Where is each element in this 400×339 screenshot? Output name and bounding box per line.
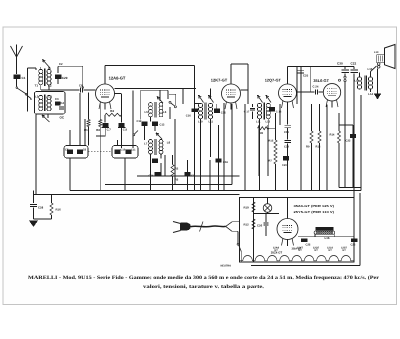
- svg-text:C11: C11: [131, 149, 136, 152]
- svg-text:C.8: C.8: [123, 129, 128, 132]
- svg-text:GT: GT: [274, 249, 278, 252]
- svg-text:C15: C15: [221, 112, 226, 115]
- svg-text:R16: R16: [56, 208, 62, 212]
- svg-text:C3: C3: [55, 97, 59, 101]
- svg-text:L13: L13: [355, 80, 360, 83]
- svg-text:R1: R1: [84, 128, 88, 132]
- svg-text:C20: C20: [282, 164, 287, 167]
- svg-text:L4: L4: [49, 95, 53, 99]
- svg-text:35Z4-GT (PER 125 V): 35Z4-GT (PER 125 V): [294, 204, 335, 208]
- svg-text:C1: C1: [22, 76, 26, 80]
- svg-text:C16: C16: [223, 161, 228, 164]
- svg-text:C26: C26: [257, 224, 263, 228]
- svg-text:R15: R15: [269, 140, 274, 143]
- svg-text:12K7-GT: 12K7-GT: [211, 77, 228, 82]
- svg-text:R14: R14: [330, 134, 335, 137]
- svg-text:C.7: C.7: [107, 129, 112, 132]
- svg-text:GT: GT: [314, 249, 318, 252]
- svg-text:C6: C6: [79, 84, 83, 88]
- svg-text:35L6-GT: 35L6-GT: [313, 78, 329, 83]
- svg-text:R5: R5: [175, 179, 179, 182]
- svg-text:C23: C23: [346, 140, 351, 143]
- svg-text:R4: R4: [110, 109, 114, 113]
- svg-text:25Y5-GT (PER 110 V): 25Y5-GT (PER 110 V): [294, 210, 335, 214]
- svg-text:C 18: C 18: [276, 110, 282, 113]
- svg-text:L5: L5: [145, 110, 149, 114]
- svg-text:L14: L14: [368, 92, 373, 96]
- svg-text:C24: C24: [284, 145, 289, 148]
- svg-text:valori, tensioni, tarature v.: valori, tensioni, tarature v. tabella a …: [143, 284, 265, 290]
- svg-text:L2: L2: [48, 84, 52, 88]
- svg-text:L8: L8: [167, 141, 171, 145]
- svg-text:L7: L7: [144, 142, 148, 146]
- svg-text:C13: C13: [160, 124, 165, 127]
- svg-text:R9: R9: [306, 146, 310, 149]
- svg-text:OC: OC: [60, 115, 65, 119]
- svg-text:C12: C12: [137, 120, 142, 123]
- svg-text:R13: R13: [316, 146, 321, 149]
- svg-text:L11: L11: [256, 120, 261, 123]
- svg-text:GT: GT: [328, 249, 332, 252]
- svg-text:C28: C28: [38, 206, 44, 210]
- svg-text:C4: C4: [61, 101, 65, 105]
- svg-text:C26: C26: [351, 244, 356, 247]
- svg-text:C2: C2: [59, 62, 63, 66]
- svg-text:C25: C25: [303, 74, 309, 78]
- svg-text:C10: C10: [121, 149, 126, 152]
- svg-text:R2: R2: [175, 168, 179, 171]
- svg-text:C5: C5: [65, 149, 69, 152]
- svg-text:R12: R12: [244, 223, 250, 227]
- svg-text:L13: L13: [374, 51, 379, 54]
- svg-text:C29: C29: [62, 76, 68, 80]
- svg-text:L3: L3: [35, 95, 39, 99]
- svg-text:L6: L6: [163, 110, 167, 114]
- svg-text:GT: GT: [342, 249, 346, 252]
- svg-text:R6: R6: [260, 131, 264, 135]
- svg-text:R2: R2: [96, 128, 100, 132]
- svg-text:12A8-GT: 12A8-GT: [109, 75, 126, 80]
- svg-text:R7: R7: [269, 160, 273, 163]
- svg-text:C19: C19: [284, 131, 289, 134]
- svg-text:GT: GT: [298, 249, 302, 252]
- svg-text:C 24: C 24: [313, 85, 319, 89]
- svg-text:MARELLI - Mod. 9U15 - Serie Fi: MARELLI - Mod. 9U15 - Serie Fido - Gamme…: [28, 275, 380, 281]
- svg-text:C25: C25: [306, 244, 311, 247]
- svg-text:R19: R19: [244, 206, 250, 210]
- svg-text:C6: C6: [83, 149, 87, 152]
- svg-text:C30: C30: [337, 61, 343, 65]
- svg-text:C22: C22: [351, 61, 357, 65]
- svg-text:T1: T1: [35, 84, 39, 88]
- svg-text:12Q7-GT: 12Q7-GT: [265, 78, 282, 83]
- svg-text:NEUTRO: NEUTRO: [221, 264, 232, 267]
- svg-text:C16: C16: [186, 114, 191, 117]
- svg-text:L11: L11: [209, 120, 214, 123]
